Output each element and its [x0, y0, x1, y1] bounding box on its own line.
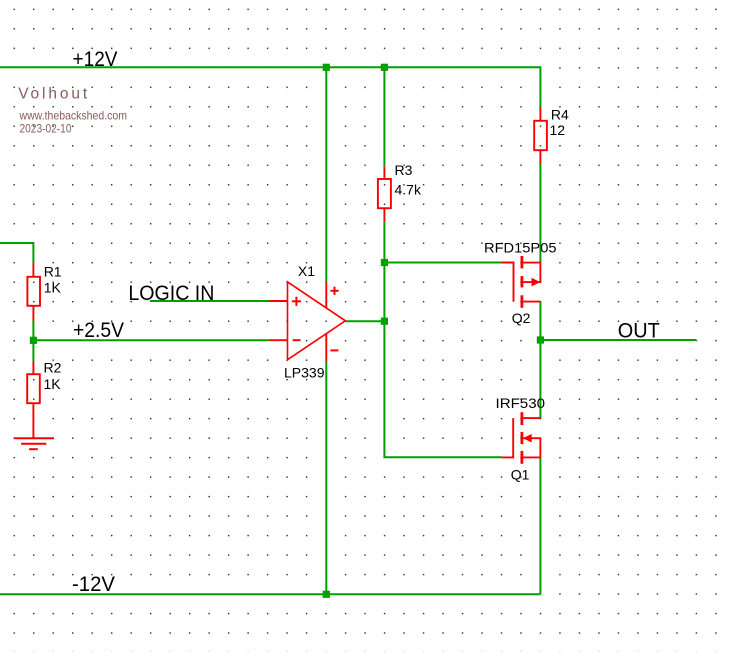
- svg-text:2023-02-10: 2023-02-10: [20, 121, 72, 135]
- svg-text:1K: 1K: [44, 376, 62, 392]
- svg-text:R3: R3: [395, 162, 413, 178]
- node +2.5V junction: [30, 337, 37, 344]
- wire +2.5V node to comparator inverting input: [33, 339, 269, 341]
- svg-text:Q2: Q2: [512, 310, 531, 326]
- pin drain stub bottom: [522, 301, 541, 303]
- resistor R4: [534, 107, 547, 164]
- body arrow line: [522, 281, 541, 283]
- pin V- power: [325, 334, 327, 361]
- wire Q2 drain to OUT node: [539, 302, 541, 340]
- pin non-inverting input: [270, 300, 288, 302]
- pin source stub top: [522, 262, 541, 264]
- wire underlay mask (hides grid dots beneath wires): [0, 67, 696, 594]
- body arrow head: [532, 278, 541, 287]
- wire -12V bottom rail: [0, 593, 540, 595]
- wire R1 to +2.5V node to R2: [32, 321, 34, 361]
- body tie vertical: [539, 438, 541, 457]
- op-amp U1 comparator X1 LP339: [270, 282, 346, 361]
- svg-text:12: 12: [550, 122, 566, 138]
- svg-text:+2.5V: +2.5V: [73, 319, 124, 342]
- svg-text:LOGIC IN: LOGIC IN: [128, 282, 214, 305]
- svg-text:www.thebackshed.com: www.thebackshed.com: [19, 108, 127, 122]
- triangle body: [288, 282, 346, 360]
- wire LOGIC IN to comparator non-inverting input: [150, 300, 270, 302]
- svg-text:IRF530: IRF530: [496, 395, 546, 411]
- body arrow line: [522, 437, 541, 439]
- pin source stub bottom: [522, 456, 541, 458]
- gate lead and gate bar: [502, 418, 513, 457]
- wire left input to R1: [0, 243, 33, 263]
- svg-text:LP339: LP339: [284, 365, 325, 381]
- wire OUT node to Q1 drain: [539, 340, 541, 418]
- svg-text:-12V: -12V: [72, 573, 115, 596]
- svg-text:R1: R1: [44, 264, 62, 280]
- svg-text:R4: R4: [551, 106, 569, 122]
- plus marker V+: [330, 287, 338, 295]
- svg-text:RFD15P05: RFD15P05: [484, 239, 557, 255]
- svg-text:R2: R2: [44, 359, 62, 375]
- svg-text:X1: X1: [298, 263, 315, 279]
- node junction top rail / R3 net: [381, 64, 388, 71]
- node junction top rail / comparator power: [323, 64, 330, 71]
- svg-text:1K: 1K: [44, 279, 62, 295]
- wire Q1 source to -12V rail: [539, 457, 541, 594]
- transistor Q1 IRF530 N-MOSFET: [502, 412, 540, 464]
- resistor R2: [27, 361, 40, 438]
- node junction bottom rail / comparator power: [323, 591, 330, 598]
- resistor R3: [378, 166, 391, 221]
- body arrow head: [523, 434, 532, 443]
- pin V+ power: [325, 282, 327, 308]
- gate lead and gate bar: [502, 263, 514, 302]
- svg-text:Q1: Q1: [511, 467, 530, 483]
- channel bar segments: [521, 412, 524, 464]
- svg-text:4.7k: 4.7k: [395, 181, 422, 197]
- pin inverting input: [270, 339, 288, 341]
- svg-text:+12V: +12V: [73, 48, 118, 71]
- minus marker V-: [330, 349, 338, 351]
- minus marker inverting input: [293, 339, 301, 341]
- wire gate node to Q2 gate: [384, 262, 502, 264]
- node junction gate net / Q2 gate: [381, 259, 388, 266]
- wire comparator output: [345, 320, 384, 322]
- pin drain stub top: [522, 417, 541, 419]
- channel bar segments: [521, 256, 524, 308]
- wire OUT: [540, 339, 696, 341]
- transistor Q2 RFD15P05 P-MOSFET: [502, 256, 540, 308]
- wire +12V rail to R3: [383, 67, 385, 166]
- wire R3 bottom to gate node to Q1 gate: [384, 222, 502, 458]
- wire R4 to Q2 source: [539, 164, 541, 263]
- svg-text:OUT: OUT: [618, 320, 660, 343]
- node junction comparator output: [381, 318, 388, 325]
- ground: [14, 438, 54, 449]
- body tie vertical: [539, 263, 541, 283]
- resistor R1: [27, 263, 40, 321]
- wire +12V top rail: [0, 67, 540, 107]
- wire comparator power vertical +12V to -12V: [325, 67, 327, 594]
- plus marker non-inverting input: [292, 297, 301, 306]
- node OUT junction: [537, 336, 544, 343]
